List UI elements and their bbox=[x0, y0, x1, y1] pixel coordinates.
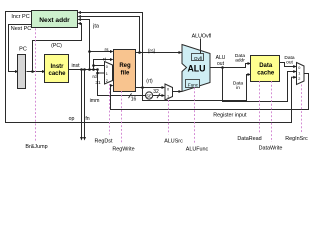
svg-text:1: 1 bbox=[167, 95, 169, 99]
svg-text:Br&Jump: Br&Jump bbox=[25, 144, 47, 150]
wire: rt tap to RegDst mux input 0 bbox=[94, 65, 105, 67]
svg-text:(rs): (rs) bbox=[148, 48, 156, 54]
wire: Register input (mux output back to Reg file) bbox=[111, 74, 309, 110]
wire: rs into Reg file port bbox=[90, 51, 113, 53]
svg-text:ALU: ALU bbox=[187, 64, 205, 74]
svg-text:Ovfl: Ovfl bbox=[194, 56, 202, 61]
svg-text:SE: SE bbox=[146, 94, 152, 99]
mux RegInSrc bbox=[297, 63, 305, 85]
block: Reg file bbox=[114, 50, 136, 92]
svg-text:DataRead: DataRead bbox=[237, 136, 261, 142]
svg-text:cache: cache bbox=[257, 71, 275, 77]
svg-text:0: 0 bbox=[167, 88, 169, 92]
wire: RegDst mux output into Reg file bbox=[113, 72, 114, 74]
op-amp style ALU U2 bbox=[182, 45, 210, 92]
register PC bbox=[18, 55, 26, 89]
svg-text:ALUOvfl: ALUOvfl bbox=[192, 34, 212, 40]
svg-text:0: 0 bbox=[106, 65, 108, 69]
sub-box Func bbox=[186, 80, 200, 88]
svg-text:2: 2 bbox=[298, 77, 300, 81]
svg-text:out: out bbox=[217, 61, 225, 67]
wire: inst bus bbox=[69, 69, 98, 71]
svg-text:1: 1 bbox=[106, 72, 108, 76]
wire: ALUSrc mux output to ALU bbox=[173, 91, 182, 93]
svg-text:in: in bbox=[236, 85, 240, 91]
svg-text:Reg: Reg bbox=[119, 63, 131, 69]
wire: ALU output to Data cache addr bbox=[210, 64, 250, 68]
svg-text:Incr PC: Incr PC bbox=[11, 14, 29, 20]
sign extender SE bbox=[146, 92, 153, 99]
svg-text:Next PC: Next PC bbox=[11, 26, 32, 32]
wire: op field down to control bbox=[81, 70, 83, 138]
svg-text:jta: jta bbox=[92, 23, 100, 29]
svg-text:2: 2 bbox=[106, 79, 108, 83]
junction on ALU out bbox=[221, 66, 224, 69]
svg-text:(PC): (PC) bbox=[51, 43, 62, 49]
svg-text:Data: Data bbox=[259, 63, 273, 69]
svg-text:0: 0 bbox=[298, 66, 300, 70]
svg-text:rs: rs bbox=[105, 47, 110, 53]
sub-box Ovfl bbox=[192, 54, 204, 61]
svg-text:ALUSrc: ALUSrc bbox=[164, 138, 183, 144]
svg-text:RegInSrc: RegInSrc bbox=[285, 136, 308, 142]
wire: (rt) branch down to Data cache data in bbox=[143, 75, 251, 101]
control: DataWrite dashed line bbox=[271, 81, 273, 142]
control: DataRead dashed line bbox=[259, 81, 261, 133]
svg-text:(rt): (rt) bbox=[146, 79, 153, 85]
control: ALUSrc dashed line bbox=[168, 100, 170, 135]
svg-text:16: 16 bbox=[131, 97, 137, 103]
wire: (rt) from Reg file to ALUSrc mux input 0 and up to Next addr input 1 bbox=[136, 87, 165, 89]
wire: jta up to Next addr input 3 / rs field to Reg file bbox=[80, 20, 90, 70]
svg-text:ALUFunc: ALUFunc bbox=[186, 146, 209, 152]
wire: ALU out branch to RegInSrc mux input 1 bbox=[223, 68, 296, 102]
wire: Ovfl up tick bbox=[200, 39, 202, 54]
block: Next addr U1 bbox=[32, 11, 78, 28]
mux RegDst (rd/31) bbox=[105, 62, 113, 85]
svg-text:Func: Func bbox=[188, 83, 199, 88]
control: RegDst dashed line bbox=[109, 84, 111, 135]
wire: Next PC (Next addr to PC input) bbox=[9, 25, 32, 72]
svg-text:Next addr: Next addr bbox=[39, 17, 70, 24]
svg-text:imm: imm bbox=[90, 98, 100, 104]
junction on PC output bbox=[31, 70, 34, 73]
junction dots on inst bus bbox=[80, 68, 83, 71]
svg-text:rd: rd bbox=[92, 74, 97, 80]
svg-text:31: 31 bbox=[95, 80, 101, 86]
wire: rd field to RegDst mux input 1 / imm down to SE bbox=[98, 70, 146, 96]
arrowhead IncrPC into RegInSrc mux input 2 bbox=[293, 76, 297, 79]
svg-text:PC: PC bbox=[19, 47, 27, 53]
svg-text:op: op bbox=[69, 116, 75, 122]
control: Br&Jump dashed line bbox=[35, 29, 37, 142]
svg-text:32: 32 bbox=[153, 89, 159, 95]
control: ALUFunc dashed line bbox=[194, 88, 196, 144]
svg-text:fn: fn bbox=[85, 116, 89, 122]
wire: SE output to ALUSrc mux input 1 bbox=[153, 95, 164, 97]
mux ALUSrc bbox=[165, 84, 173, 100]
svg-text:inst: inst bbox=[71, 63, 80, 69]
svg-text:file: file bbox=[121, 71, 130, 77]
arrowhead into PC bbox=[15, 70, 19, 73]
block: Data cache bbox=[251, 56, 280, 82]
control: RegInSrc dashed line bbox=[301, 85, 303, 134]
bit-width tick 16 on imm wire bbox=[129, 93, 132, 98]
svg-text:out: out bbox=[286, 59, 293, 65]
svg-text:Register input: Register input bbox=[213, 112, 247, 118]
svg-text:Instr: Instr bbox=[50, 64, 64, 70]
wire: (PC) feedback up to Next addr input 4 bbox=[33, 24, 82, 72]
wire: Data out to RegInSrc mux input 0 bbox=[280, 63, 296, 67]
svg-text:cache: cache bbox=[48, 71, 66, 77]
svg-text:RegWrite: RegWrite bbox=[112, 146, 134, 152]
svg-text:DataWrite: DataWrite bbox=[259, 145, 283, 151]
wire: (rs) from Reg file to ALU and up to Next addr input 2 bbox=[136, 52, 182, 54]
wire: PC output to Instr cache bbox=[27, 71, 45, 73]
wire: fn field down to control bbox=[84, 70, 86, 138]
svg-text:addr: addr bbox=[235, 57, 245, 63]
bit-width tick 32 after SE bbox=[157, 93, 160, 98]
block: Instr cache bbox=[45, 55, 69, 83]
arrowhead into Instr cache bbox=[42, 70, 46, 73]
wire: Incr PC loop (Next addr to RegInSrc mux around left+bottom) bbox=[6, 12, 297, 123]
svg-text:1: 1 bbox=[298, 72, 300, 76]
arrowheads into Next addr right edge (inputs rt,rs,jta,PC) bbox=[78, 11, 82, 14]
svg-text:RegDst: RegDst bbox=[95, 138, 113, 144]
wire: rt field up into Reg file port bbox=[94, 60, 113, 70]
control: RegWrite dashed line bbox=[121, 91, 123, 143]
